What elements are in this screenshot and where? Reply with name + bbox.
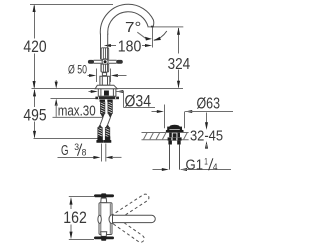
svg-text:Ø34: Ø34: [125, 93, 152, 111]
svg-text:4: 4: [213, 162, 218, 173]
svg-text:180: 180: [118, 38, 142, 55]
svg-text:Ø63: Ø63: [197, 96, 221, 113]
svg-text:495: 495: [23, 107, 46, 125]
svg-text:32-45: 32-45: [190, 129, 223, 145]
svg-text:G: G: [61, 143, 69, 159]
svg-text:max.30: max.30: [58, 103, 96, 120]
svg-text:Ø 50: Ø 50: [68, 65, 87, 77]
svg-text:1: 1: [204, 156, 208, 167]
svg-text:324: 324: [168, 56, 191, 73]
svg-text:162: 162: [63, 209, 87, 227]
svg-text:G1: G1: [186, 157, 204, 174]
svg-text:420: 420: [23, 38, 46, 56]
svg-text:7°: 7°: [125, 20, 141, 36]
svg-text:8: 8: [82, 148, 87, 159]
svg-text:3: 3: [74, 142, 79, 153]
